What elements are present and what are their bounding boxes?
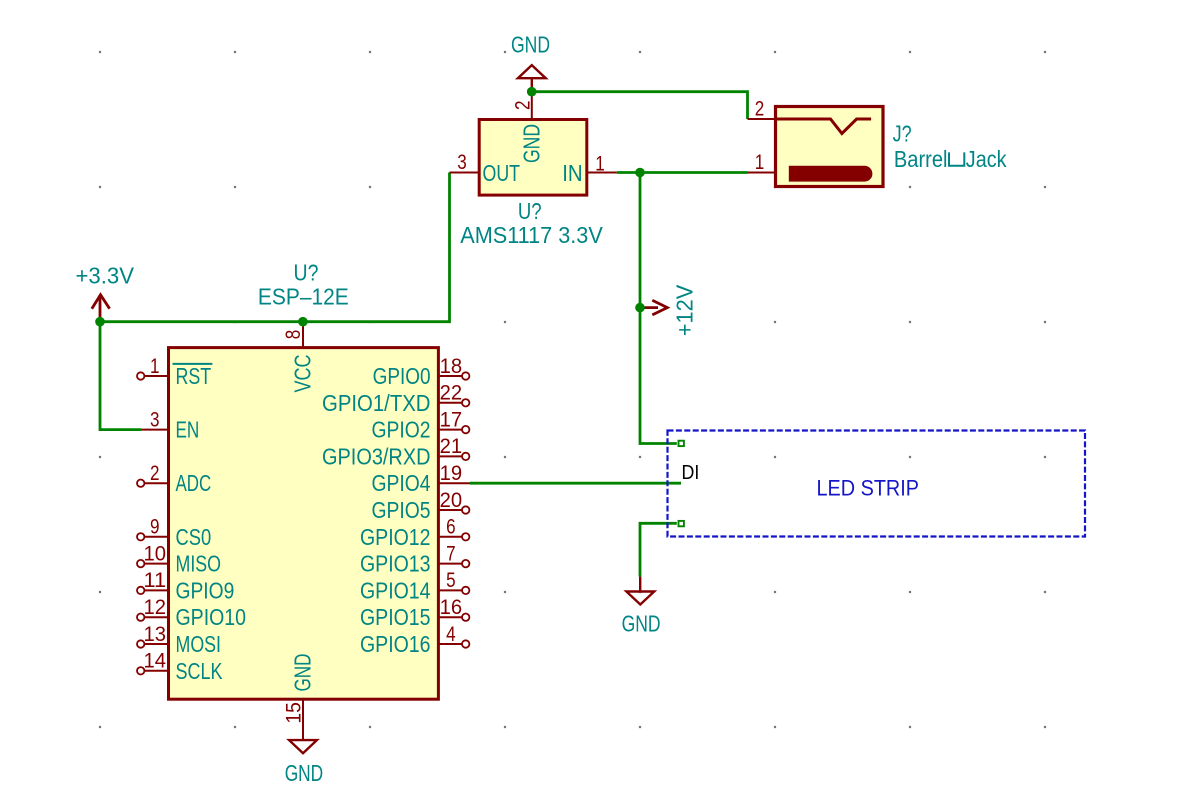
svg-text:GND: GND	[622, 610, 661, 636]
svg-text:GPIO15: GPIO15	[360, 604, 431, 630]
svg-text:GPIO14: GPIO14	[360, 577, 431, 603]
svg-text:21: 21	[440, 435, 463, 458]
svg-text:6: 6	[446, 516, 456, 539]
svg-text:RST: RST	[176, 363, 212, 389]
svg-text:U?: U?	[294, 260, 319, 286]
ESP pin 22 GPIO1/TXD	[322, 382, 469, 416]
regulator pin 2 GND	[512, 92, 545, 163]
barrel jack pin 1	[748, 151, 776, 174]
svg-text:LED STRIP: LED STRIP	[817, 475, 920, 500]
regulator pin 3 OUT	[450, 151, 521, 186]
wire +12V net: regulator IN to barrel jack pin 1	[617, 171, 748, 174]
svg-text:1: 1	[755, 151, 765, 174]
regulator pin 1 IN	[562, 152, 617, 186]
ESP pin 20 GPIO5	[372, 489, 470, 523]
ESP pin 16 GPIO15	[360, 596, 469, 630]
ESP pin 11 GPIO9	[137, 569, 234, 603]
IC U? ESP-12E body	[169, 348, 439, 700]
svg-text:GPIO5: GPIO5	[372, 497, 431, 523]
junction VCC pin 8	[298, 317, 308, 327]
svg-text:J?: J?	[893, 121, 912, 147]
wire +12V net branch down to LED strip supply pin	[640, 173, 677, 444]
svg-text:17: 17	[440, 408, 463, 431]
svg-text:GPIO2: GPIO2	[372, 417, 431, 443]
ESP pin 6 GPIO12	[360, 516, 469, 550]
svg-text:GPIO16: GPIO16	[360, 631, 431, 657]
ESP pin 4 GPIO16	[360, 623, 469, 657]
ground symbol below LED strip	[626, 577, 654, 605]
svg-text:GPIO3/RXD: GPIO3/RXD	[322, 443, 431, 469]
svg-text:OUT: OUT	[483, 160, 521, 186]
svg-text:GPIO10: GPIO10	[176, 604, 247, 630]
svg-text:GPIO9: GPIO9	[176, 577, 235, 603]
ESP pin 14 SCLK	[137, 650, 223, 684]
svg-text:GPIO4: GPIO4	[372, 470, 431, 496]
connector J? value label Barrel_Jack	[894, 146, 1007, 172]
ESP pin 1 RST	[137, 355, 212, 389]
svg-text:12: 12	[144, 596, 167, 619]
ESP pin 10 MISO	[137, 542, 221, 576]
connector J? barrel jack body	[776, 107, 884, 187]
barrel jack center pin drawing	[789, 166, 873, 182]
svg-text:VCC: VCC	[289, 354, 315, 392]
svg-text:EN: EN	[176, 417, 200, 443]
LED strip supply pin square	[679, 441, 684, 446]
svg-text:11: 11	[144, 569, 167, 592]
svg-text:GPIO12: GPIO12	[360, 524, 431, 550]
svg-text:GPIO1/TXD: GPIO1/TXD	[322, 390, 431, 416]
svg-text:Jack: Jack	[966, 146, 1007, 172]
svg-text:GND: GND	[285, 760, 324, 786]
wire GND net: regulator GND pin to barrel jack pin 2	[532, 92, 748, 119]
svg-text:3: 3	[457, 151, 467, 174]
svg-text:13: 13	[144, 623, 167, 646]
ESP pin 3 EN	[141, 408, 199, 442]
regulator U? AMS1117 body	[479, 120, 587, 196]
power symbol +12V	[640, 300, 667, 315]
ESP pin 15 GND	[282, 654, 315, 741]
svg-text:7: 7	[446, 542, 456, 565]
svg-text:MISO: MISO	[176, 551, 222, 577]
ground symbol above regulator	[518, 65, 546, 92]
svg-text:+12V: +12V	[672, 284, 698, 336]
svg-text:GPIO0: GPIO0	[373, 363, 431, 389]
svg-text:IN: IN	[562, 160, 582, 186]
LED strip dashed outline box	[668, 431, 1086, 537]
ESP pin 12 GPIO10	[137, 596, 246, 630]
ESP pin 21 GPIO3/RXD	[322, 435, 469, 469]
LED strip return pin square	[679, 521, 684, 526]
svg-text:ADC: ADC	[176, 470, 212, 496]
svg-text:AMS1117 3.3V: AMS1117 3.3V	[460, 222, 603, 248]
svg-text:GPIO13: GPIO13	[360, 551, 431, 577]
svg-text:2: 2	[150, 462, 160, 485]
wire GPIO4 to LED strip DI	[470, 482, 681, 485]
junction +3.3V rail	[95, 317, 105, 327]
ESP pin 17 GPIO2	[372, 408, 470, 442]
svg-text:4: 4	[446, 623, 456, 646]
wire OUT net: regulator OUT to +3.3V rail	[100, 173, 450, 322]
svg-text:GND: GND	[518, 124, 544, 163]
svg-text:1: 1	[595, 152, 605, 175]
svg-text:U?: U?	[518, 198, 542, 224]
svg-text:15: 15	[282, 702, 305, 724]
svg-text:10: 10	[144, 542, 167, 565]
svg-text:MOSI: MOSI	[176, 631, 222, 657]
svg-text:2: 2	[755, 98, 765, 121]
barrel jack sleeve contact drawing	[777, 119, 871, 134]
svg-text:8: 8	[282, 330, 305, 340]
svg-text:3: 3	[150, 408, 160, 431]
svg-text:GND: GND	[289, 654, 315, 692]
ESP pin 8 VCC	[282, 322, 316, 393]
svg-text:1: 1	[150, 355, 160, 378]
svg-text:18: 18	[440, 355, 463, 378]
ESP pin 2 ADC	[137, 462, 211, 496]
svg-text:5: 5	[446, 569, 456, 592]
svg-text:CS0: CS0	[176, 524, 212, 550]
ESP pin 5 GPIO14	[360, 569, 469, 603]
svg-text:Barrel: Barrel	[894, 146, 948, 172]
junction +12V net at IN	[635, 168, 645, 178]
svg-text:16: 16	[440, 596, 463, 619]
svg-text:ESP–12E: ESP–12E	[258, 283, 349, 309]
ESP pin 9 CS0	[137, 516, 211, 550]
wire +3.3V rail down to EN pin	[100, 322, 141, 430]
ESP pin 13 MOSI	[137, 623, 221, 657]
svg-text:9: 9	[150, 516, 160, 539]
svg-text:DI: DI	[682, 462, 700, 484]
svg-text:+3.3V: +3.3V	[76, 262, 135, 288]
ESP pin 7 GPIO13	[360, 542, 469, 576]
svg-text:19: 19	[440, 462, 463, 485]
junction +12V power tap	[635, 303, 645, 313]
ground symbol at ESP pin 15	[289, 740, 317, 753]
svg-text:2: 2	[512, 100, 535, 110]
ESP pin 19 GPIO4	[372, 462, 471, 496]
svg-text:GND: GND	[511, 31, 550, 57]
wire LED strip return pin to GND symbol	[640, 523, 677, 576]
svg-text:22: 22	[440, 382, 463, 405]
ESP pin 18 GPIO0	[373, 355, 470, 389]
power symbol +3.3V	[92, 295, 110, 322]
barrel jack pin 2	[748, 98, 776, 121]
svg-text:SCLK: SCLK	[176, 658, 223, 684]
svg-text:14: 14	[144, 650, 167, 673]
svg-text:20: 20	[440, 489, 463, 512]
junction GND net at regulator	[527, 87, 537, 97]
